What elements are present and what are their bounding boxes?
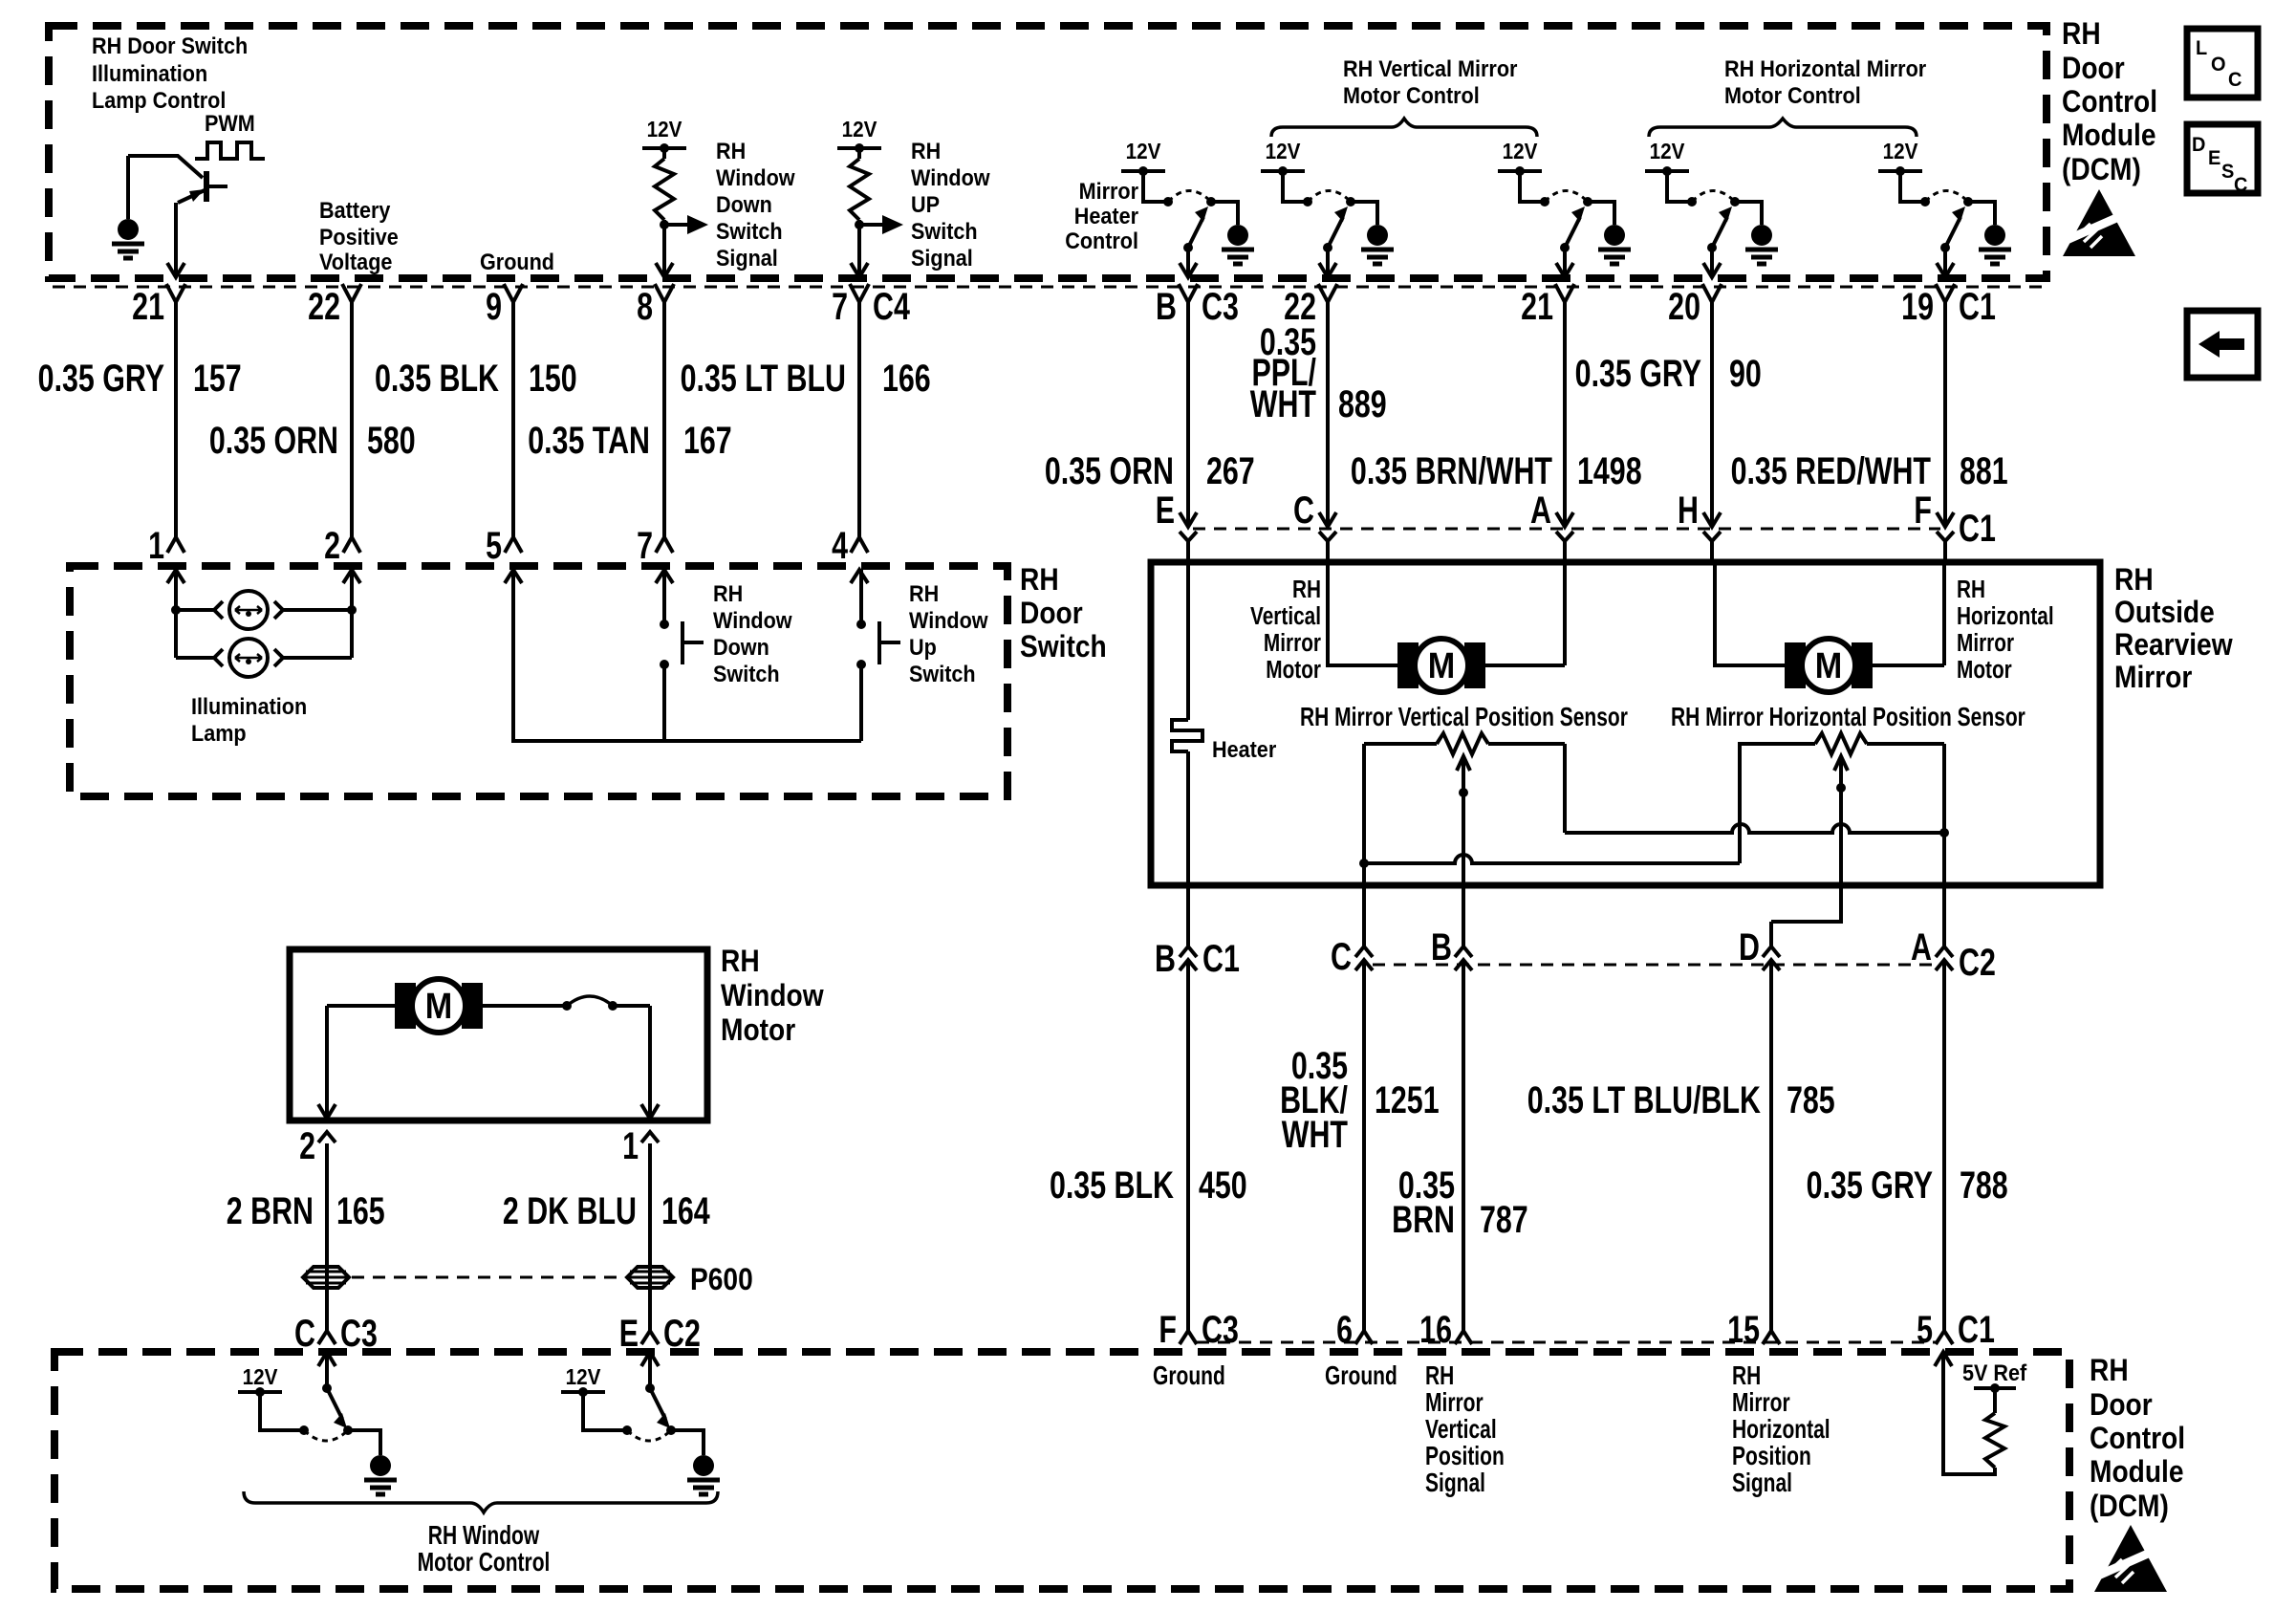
wire pin to window motor down drive pole [325, 1352, 329, 1388]
relay switch vertical mirror motor up [1283, 171, 1308, 202]
svg-text:(DCM): (DCM) [2062, 153, 2141, 186]
wire lamp1 leads [176, 608, 352, 612]
svg-text:0.35 ORN: 0.35 ORN [1045, 449, 1174, 492]
svg-text:Switch: Switch [1020, 630, 1107, 664]
svg-text:Switch: Switch [909, 661, 976, 686]
svg-text:C: C [1293, 489, 1314, 532]
connector C2 line (below mirror) [1373, 964, 1935, 967]
pin 22 (top row) [1318, 284, 1337, 302]
svg-text:6: 6 [1336, 1308, 1353, 1351]
wire C sensor-left lead to pin 6 [1362, 863, 1366, 1331]
brace RH Window Motor Control [244, 1491, 718, 1512]
svg-text:21: 21 [132, 285, 164, 328]
ground (horizontal mirror motor right) [1984, 225, 2005, 246]
vertical sensor wiper [1457, 756, 1470, 771]
window motor M [397, 985, 414, 1027]
pin C (below mirror) [1355, 946, 1373, 957]
ground (window motor up drive) [693, 1455, 714, 1476]
svg-text:1: 1 [148, 524, 164, 567]
svg-text:B: B [1431, 925, 1452, 968]
pin 7 connector C4 (top row) [850, 284, 869, 302]
svg-text:Door: Door [2090, 1388, 2153, 1422]
svg-text:15: 15 [1727, 1308, 1760, 1351]
svg-text:Position: Position [1425, 1442, 1505, 1471]
pin 21 (top row) [1555, 284, 1574, 302]
resistor pull-up (RH window up switch signal) [857, 148, 861, 159]
pin 22 (top row) [342, 284, 361, 302]
svg-text:B: B [1156, 285, 1177, 328]
svg-text:A: A [1911, 925, 1932, 968]
brace horizontal mirror motor control [1649, 119, 1917, 137]
svg-text:C: C [1331, 935, 1352, 978]
svg-text:12V: 12V [566, 1364, 601, 1389]
pin 6 (bottom DCM) [1355, 1331, 1373, 1344]
PWM waveform [195, 142, 265, 159]
svg-text:1251: 1251 [1375, 1078, 1440, 1121]
signal tap arrow (RH window up switch signal) [855, 220, 864, 229]
svg-text:RH: RH [2114, 563, 2154, 597]
svg-text:2: 2 [299, 1124, 315, 1167]
DESC box [2187, 124, 2258, 193]
svg-text:450: 450 [1199, 1164, 1247, 1207]
svg-text:889: 889 [1338, 382, 1387, 425]
svg-text:881: 881 [1960, 449, 2008, 492]
svg-text:19: 19 [1901, 285, 1934, 328]
svg-text:RH Door Switch: RH Door Switch [92, 33, 248, 58]
RH Door Switch box [70, 566, 1007, 796]
svg-text:Door: Door [2062, 52, 2125, 85]
svg-text:O: O [2211, 54, 2226, 76]
svg-text:0.35 ORN: 0.35 ORN [209, 419, 338, 462]
RH Window Up Switch contact [859, 570, 863, 624]
svg-text:Motor Control: Motor Control [418, 1548, 551, 1577]
wire E to heater [1186, 562, 1190, 720]
inline connector P600 right [627, 1267, 673, 1288]
svg-text:RH: RH [1732, 1361, 1761, 1391]
pin 21 (top row) [166, 284, 185, 302]
relay switch horizontal mirror motor left [1667, 171, 1692, 202]
svg-text:Window: Window [721, 979, 824, 1012]
relay switch window motor down drive [260, 1392, 304, 1430]
svg-text:RH Vertical Mirror: RH Vertical Mirror [1343, 55, 1518, 81]
svg-text:M: M [1428, 644, 1455, 685]
svg-text:RH Mirror Vertical Position Se: RH Mirror Vertical Position Sensor [1300, 703, 1628, 732]
svg-text:Window: Window [716, 164, 795, 190]
svg-text:0.35 GRY: 0.35 GRY [1807, 1164, 1934, 1207]
svg-text:Heater: Heater [1074, 203, 1138, 228]
LOC box [2187, 29, 2258, 98]
svg-text:0.35 TAN: 0.35 TAN [528, 419, 650, 462]
illumination lamp 2 [214, 649, 223, 666]
svg-text:Horizontal: Horizontal [1957, 602, 2054, 630]
svg-text:E: E [1156, 489, 1175, 532]
svg-text:D: D [1739, 925, 1760, 968]
wire mirror heater control pole to pin [1186, 248, 1190, 277]
svg-text:C: C [2234, 174, 2248, 197]
svg-text:M: M [425, 985, 452, 1026]
svg-text:5V Ref: 5V Ref [1962, 1360, 2027, 1385]
svg-text:22: 22 [308, 285, 340, 328]
pin 9 (top row) [504, 284, 523, 302]
svg-text:580: 580 [367, 419, 416, 462]
wire 871 crossover (vertical sensor right to A/C2) [1565, 824, 1940, 833]
svg-text:B: B [1155, 937, 1176, 980]
svg-text:C1: C1 [1202, 937, 1240, 980]
svg-text:Door: Door [1020, 597, 1083, 630]
svg-text:C3: C3 [1202, 1308, 1239, 1351]
wire pin 2 to lamps [350, 570, 354, 658]
svg-text:Vertical: Vertical [1250, 602, 1321, 630]
svg-text:Mirror: Mirror [1264, 629, 1321, 657]
svg-text:UP: UP [911, 191, 940, 217]
svg-text:Motor Control: Motor Control [1724, 82, 1861, 108]
RH Window Motor box [290, 949, 707, 1120]
horizontal sensor wiper [1834, 756, 1848, 771]
svg-text:RH: RH [909, 580, 939, 606]
pin 15 (bottom DCM) [1763, 1331, 1780, 1344]
svg-text:RH: RH [721, 945, 760, 978]
svg-text:RH Horizontal Mirror: RH Horizontal Mirror [1724, 55, 1926, 81]
svg-text:Ground: Ground [480, 249, 554, 274]
svg-text:RH: RH [2062, 17, 2101, 51]
svg-text:90: 90 [1729, 352, 1762, 395]
RH Outside Rearview Mirror box [1151, 562, 2100, 885]
wire sensor left lead down [1362, 744, 1366, 863]
svg-text:Battery: Battery [319, 197, 391, 223]
wire pin 5 to 5V ref resistor [1935, 1352, 1952, 1366]
svg-text:WHT: WHT [1282, 1113, 1348, 1156]
svg-text:785: 785 [1787, 1078, 1835, 1121]
svg-text:L: L [2196, 37, 2207, 60]
svg-text:0.35 BLK: 0.35 BLK [1050, 1164, 1174, 1207]
svg-text:0.35 GRY: 0.35 GRY [38, 357, 165, 400]
svg-text:RH Mirror Horizontal Position: RH Mirror Horizontal Position Sensor [1671, 703, 2025, 732]
svg-text:0.35 BRN/WHT: 0.35 BRN/WHT [1351, 449, 1552, 492]
wire C to vertical motor [1328, 562, 1397, 665]
svg-text:8: 8 [637, 285, 653, 328]
wire pin 19 to F [1943, 302, 1947, 527]
svg-text:0.35 BLK: 0.35 BLK [375, 357, 499, 400]
svg-text:RH: RH [911, 138, 941, 163]
relay switch vertical mirror motor down [1520, 171, 1545, 202]
svg-text:7: 7 [832, 285, 848, 328]
signal tap arrow (RH window down switch signal) [660, 220, 669, 229]
RH Window Down Switch contact [662, 570, 666, 624]
svg-text:M: M [1815, 644, 1842, 685]
svg-text:Switch: Switch [716, 218, 783, 244]
svg-text:787: 787 [1480, 1198, 1528, 1241]
wire transistor emitter to pin 21 [174, 203, 178, 277]
svg-text:5: 5 [486, 524, 502, 567]
horizontal position sensor resistor [1815, 733, 1867, 754]
svg-text:Heater: Heater [1212, 736, 1276, 762]
pin 8 (top row) [655, 284, 674, 302]
vertical mirror motor M [1399, 644, 1417, 686]
svg-text:166: 166 [882, 357, 931, 400]
wire H to horizontal motor [1715, 562, 1785, 665]
RH Door Control Module (DCM) top box [49, 26, 2047, 278]
wire pin B to E [1186, 302, 1190, 527]
wire pin 5 ground bus [513, 570, 861, 741]
wire horizontal sensor right lead down to A/C2 [1942, 744, 1946, 1331]
svg-text:150: 150 [529, 357, 577, 400]
svg-text:Down: Down [716, 191, 772, 217]
svg-text:C: C [2228, 69, 2242, 92]
pin 5 connector C1 (bottom DCM) [1936, 1331, 1953, 1344]
svg-text:12V: 12V [647, 117, 682, 141]
svg-text:Motor: Motor [721, 1013, 795, 1047]
svg-text:Control: Control [2090, 1422, 2185, 1455]
wire pin 22 to 2 [350, 302, 354, 537]
svg-text:Window: Window [909, 607, 988, 633]
svg-text:Switch: Switch [713, 661, 780, 686]
svg-text:1498: 1498 [1577, 449, 1642, 492]
svg-text:Up: Up [909, 634, 937, 660]
svg-text:Mirror: Mirror [1957, 629, 2014, 657]
svg-text:0.35 LT BLU: 0.35 LT BLU [681, 357, 846, 400]
wire vertical motor to A [1485, 562, 1565, 665]
svg-text:P600: P600 [690, 1263, 753, 1296]
svg-text:Down: Down [713, 634, 769, 660]
wire 903 crossover (C to horizontal sensor left) [1364, 744, 1815, 863]
svg-text:C3: C3 [1202, 285, 1239, 328]
svg-text:Mirror: Mirror [2114, 661, 2193, 694]
svg-text:Signal: Signal [716, 245, 778, 271]
ground (horizontal mirror motor left) [1751, 225, 1772, 246]
svg-text:Control: Control [1065, 228, 1138, 253]
ground (vertical mirror motor down) [1604, 225, 1625, 246]
svg-text:12V: 12V [1650, 139, 1685, 163]
svg-text:Horizontal: Horizontal [1732, 1415, 1830, 1445]
svg-text:Mirror: Mirror [1732, 1388, 1790, 1418]
wire pin 7 to 4 [857, 302, 861, 537]
svg-text:(DCM): (DCM) [2090, 1490, 2169, 1523]
connector C3/C1 line (bottom) [1197, 1341, 1939, 1344]
wire pin 9 to 5 [511, 302, 515, 537]
brace vertical mirror motor control [1271, 119, 1537, 137]
svg-text:Ground: Ground [1153, 1361, 1225, 1391]
svg-text:A: A [1530, 489, 1551, 532]
wire vertical mirror motor up pole to pin [1326, 248, 1330, 277]
relay switch horizontal mirror motor right [1900, 171, 1925, 202]
ground (window motor down drive) [370, 1455, 391, 1476]
wire heater to pin B/C1 [1186, 751, 1190, 1331]
svg-text:2 BRN: 2 BRN [227, 1189, 314, 1232]
svg-text:Position: Position [1732, 1442, 1811, 1471]
svg-text:Control: Control [2062, 85, 2157, 119]
svg-text:Voltage: Voltage [319, 249, 392, 274]
relay switch mirror heater control [1143, 171, 1168, 202]
svg-text:RH: RH [2090, 1354, 2129, 1387]
svg-text:12V: 12V [842, 117, 877, 141]
svg-text:12V: 12V [243, 1364, 278, 1389]
pin 16 (bottom DCM) [1455, 1331, 1472, 1344]
svg-text:C2: C2 [1959, 941, 1996, 984]
resistor pull-up (RH window down switch signal) [662, 148, 666, 159]
ESD caution symbol (bottom) [2094, 1525, 2167, 1592]
svg-text:Lamp: Lamp [191, 720, 247, 746]
svg-text:BRN: BRN [1392, 1198, 1455, 1241]
pin 19 connector C1 (top row) [1936, 284, 1955, 302]
pin B (below mirror) [1455, 946, 1472, 957]
connector C1/C2 line (mirror top) [1193, 528, 1940, 531]
wire down switch to bus [662, 664, 666, 741]
svg-text:0.35 GRY: 0.35 GRY [1575, 352, 1702, 395]
svg-text:Ground: Ground [1325, 1361, 1397, 1391]
vertical position sensor resistor [1364, 742, 1437, 746]
svg-text:D: D [2192, 134, 2205, 157]
wire pin 21 to A [1563, 302, 1567, 527]
svg-text:Illumination: Illumination [191, 693, 307, 719]
svg-text:RH Window: RH Window [428, 1521, 540, 1551]
wire horizontal motor to F [1873, 562, 1944, 665]
svg-text:12V: 12V [1126, 139, 1161, 163]
svg-text:RH: RH [1425, 1361, 1454, 1391]
svg-text:157: 157 [193, 357, 242, 400]
svg-text:0.35 LT BLU/BLK: 0.35 LT BLU/BLK [1527, 1078, 1762, 1121]
svg-text:Module: Module [2062, 119, 2156, 152]
svg-text:Outside: Outside [2114, 596, 2215, 629]
svg-text:20: 20 [1668, 285, 1700, 328]
svg-text:RH: RH [716, 138, 746, 163]
svg-text:Motor: Motor [1266, 656, 1321, 684]
svg-text:Mirror: Mirror [1425, 1388, 1484, 1418]
svg-text:21: 21 [1521, 285, 1553, 328]
pin B connector C3 (top row) [1179, 284, 1198, 302]
wire pin 20 to H [1710, 302, 1714, 527]
svg-text:C1: C1 [1959, 507, 1996, 550]
svg-text:9: 9 [486, 285, 502, 328]
wire to pin (RH window up switch signal) [857, 225, 861, 277]
pin A connector C2 (below mirror) [1936, 946, 1953, 957]
svg-text:S: S [2221, 161, 2234, 184]
svg-text:PWM: PWM [205, 110, 255, 136]
wire lamp2 leads [176, 656, 352, 660]
svg-text:5: 5 [1917, 1308, 1933, 1351]
svg-text:E: E [2208, 147, 2220, 170]
svg-text:C1: C1 [1959, 285, 1996, 328]
wire pin 21 to 1 [174, 302, 178, 537]
transistor Q1 [128, 156, 203, 178]
svg-text:16: 16 [1419, 1308, 1452, 1351]
pin F connector C3 (bottom DCM) [1180, 1331, 1197, 1344]
ESD caution symbol (top) [2063, 189, 2135, 256]
wire pin 22 to C [1326, 302, 1330, 527]
wire window motor left [327, 1006, 397, 1119]
wire vertical mirror motor down pole to pin [1563, 248, 1567, 277]
svg-text:H: H [1678, 489, 1699, 532]
5V supply bar [1974, 1386, 2016, 1390]
svg-text:RH: RH [1292, 576, 1321, 603]
svg-text:2: 2 [324, 524, 340, 567]
svg-text:12V: 12V [1883, 139, 1918, 163]
P600 dashed tie line [352, 1276, 624, 1279]
svg-text:RH: RH [1957, 576, 1985, 603]
wire pin 1 to lamps [174, 570, 178, 658]
wire horizontal mirror motor right pole to pin [1943, 248, 1947, 277]
svg-text:165: 165 [336, 1189, 385, 1232]
svg-text:WHT: WHT [1250, 382, 1316, 425]
svg-text:Mirror: Mirror [1079, 178, 1139, 204]
svg-text:Rearview: Rearview [2114, 628, 2233, 662]
wire 165 (2 BRN) [325, 1143, 329, 1331]
svg-text:F: F [1159, 1308, 1177, 1351]
RH Door Control Module (DCM) bottom box [54, 1352, 2069, 1589]
pin B connector C1 (below mirror) [1180, 946, 1197, 957]
svg-text:164: 164 [661, 1189, 710, 1232]
ground (transistor) [126, 156, 130, 219]
svg-text:12V: 12V [1503, 139, 1538, 163]
back arrow box [2187, 311, 2258, 378]
svg-text:Switch: Switch [911, 218, 978, 244]
svg-text:Signal: Signal [1732, 1469, 1792, 1498]
resistor 5V reference [1985, 1413, 2004, 1468]
ground (vertical mirror motor up) [1367, 225, 1388, 246]
svg-text:0.35 RED/WHT: 0.35 RED/WHT [1731, 449, 1932, 492]
wire pin to window motor up drive pole [648, 1352, 652, 1388]
pin D (below mirror) [1763, 946, 1780, 957]
svg-text:Motor: Motor [1957, 656, 2012, 684]
svg-text:1: 1 [622, 1124, 639, 1167]
wire up switch to bus [859, 664, 863, 741]
relay switch window motor up drive [583, 1392, 627, 1430]
ground (mirror heater control) [1227, 225, 1248, 246]
svg-text:RH: RH [713, 580, 743, 606]
svg-text:Positive: Positive [319, 224, 399, 250]
svg-text:F: F [1914, 489, 1932, 532]
wire 164 (2 DK BLU) [648, 1143, 652, 1331]
svg-text:Motor Control: Motor Control [1343, 82, 1480, 108]
wire sensor right lead down [1563, 744, 1567, 833]
svg-text:Signal: Signal [911, 245, 973, 271]
svg-text:Window: Window [713, 607, 792, 633]
wire horizontal mirror motor left pole to pin [1710, 248, 1714, 277]
svg-text:Illumination: Illumination [92, 60, 207, 86]
inline connector P600 left [303, 1267, 349, 1288]
svg-text:RH: RH [1020, 563, 1059, 597]
wire window motor right + breaker contact [481, 1004, 567, 1008]
svg-text:C1: C1 [1958, 1308, 1995, 1351]
illumination lamp 1 [214, 601, 223, 619]
svg-text:Vertical: Vertical [1425, 1415, 1497, 1445]
heater element [1172, 720, 1202, 751]
connector C4/C3/C1 line (top) [53, 286, 2044, 289]
svg-text:4: 4 [832, 524, 848, 567]
wire to pin (RH window down switch signal) [662, 225, 666, 277]
pin 20 (top row) [1702, 284, 1722, 302]
svg-text:Signal: Signal [1425, 1469, 1485, 1498]
svg-text:Window: Window [911, 164, 990, 190]
svg-text:267: 267 [1206, 449, 1255, 492]
svg-text:C4: C4 [873, 285, 910, 328]
svg-text:167: 167 [683, 419, 732, 462]
svg-text:7: 7 [637, 524, 653, 567]
svg-text:2 DK BLU: 2 DK BLU [503, 1189, 637, 1232]
svg-text:Module: Module [2090, 1455, 2184, 1489]
horizontal mirror motor M [1787, 644, 1804, 686]
svg-text:12V: 12V [1266, 139, 1301, 163]
svg-text:788: 788 [1960, 1164, 2008, 1207]
wire pin 8 to 7 [662, 302, 666, 537]
